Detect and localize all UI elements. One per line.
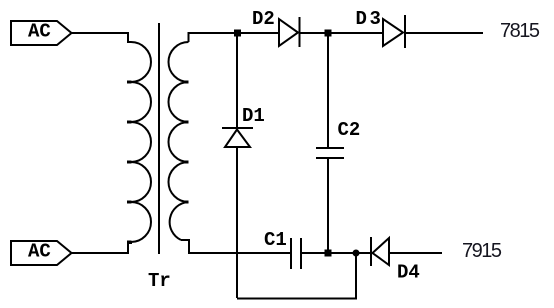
svg-text:D2: D2: [252, 8, 275, 30]
wire (node A to D2 anode): [237, 32, 279, 34]
wire (C1 right plate through node C and node D to D4 cathode): [301, 252, 371, 254]
svg-text:D1: D1: [242, 105, 265, 127]
wire (node B to D3 anode): [328, 32, 383, 34]
transformer Tr primary winding: [131, 42, 151, 242]
svg-text:AC: AC: [28, 21, 51, 43]
svg-text:D: D: [356, 8, 367, 30]
wire (node A down to D1 cathode): [236, 33, 238, 128]
node D (junction of D1 return loop, round): [353, 250, 360, 257]
diode D2: [279, 17, 300, 47]
wire (node B down to C2 top plate): [327, 33, 329, 148]
wire (bottom AC terminal to transformer primary bottom): [72, 242, 132, 253]
node A (junction of secondary top wire and D1 branch): [234, 30, 241, 37]
svg-text:C2: C2: [338, 119, 361, 141]
diode D3: [383, 15, 405, 48]
wire (D3 cathode to 7815 output): [405, 32, 483, 34]
wire (C2 bottom plate down to node C): [327, 158, 329, 253]
diode D1: [222, 128, 253, 147]
wire (D1 anode down to bottom detour): [236, 147, 238, 298]
terminal AC (bottom): [11, 241, 72, 266]
svg-text:D4: D4: [397, 262, 420, 284]
node B (junction C2 top): [325, 30, 332, 37]
label D3: [356, 8, 381, 30]
capacitor C2: [316, 148, 344, 158]
capacitor C1: [291, 238, 301, 269]
terminal AC (top): [11, 21, 72, 46]
transformer Tr core: [158, 23, 160, 254]
wire (bottom detour: D1 anode to node D): [237, 253, 356, 299]
svg-text:3: 3: [370, 8, 381, 30]
wire (D4 anode to 7915 output): [389, 252, 442, 254]
svg-text:C1: C1: [264, 229, 287, 251]
wire (secondary top to node A): [189, 33, 238, 42]
secondary winding cusp nubs: [184, 81, 189, 204]
svg-text:7915: 7915: [462, 240, 502, 262]
node C (junction C2 bottom): [325, 250, 332, 257]
svg-text:Tr: Tr: [148, 270, 171, 292]
wire (secondary bottom to C1 left plate): [181, 240, 291, 253]
diode D4: [371, 237, 389, 266]
wire (D2 cathode to node B): [300, 32, 328, 34]
wire (top AC terminal to transformer primary): [72, 33, 132, 42]
svg-text:AC: AC: [28, 241, 51, 263]
transformer Tr secondary winding: [169, 42, 189, 240]
svg-text:7815: 7815: [500, 20, 540, 42]
primary winding cusp nubs: [127, 81, 132, 244]
